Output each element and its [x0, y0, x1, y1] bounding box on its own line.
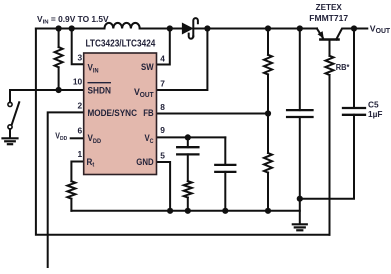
svg-text:5: 5: [160, 150, 165, 160]
svg-text:4: 4: [160, 54, 165, 64]
svg-text:3: 3: [78, 53, 83, 63]
svg-text:VIN = 0.9V TO 1.5V: VIN = 0.9V TO 1.5V: [37, 14, 109, 26]
svg-text:6: 6: [78, 126, 83, 136]
svg-text:8: 8: [160, 102, 165, 112]
svg-text:MODE/SYNC: MODE/SYNC: [88, 108, 138, 119]
svg-text:1: 1: [78, 149, 83, 159]
svg-text:FMMT717: FMMT717: [309, 13, 348, 23]
svg-text:FB: FB: [143, 107, 153, 118]
svg-text:ZETEX: ZETEX: [316, 3, 343, 12]
svg-text:9: 9: [160, 125, 165, 135]
svg-text:10: 10: [73, 77, 83, 87]
svg-text:1µF: 1µF: [368, 109, 382, 119]
svg-text:2: 2: [78, 101, 83, 111]
svg-text:GND: GND: [136, 156, 153, 167]
svg-text:SHDN: SHDN: [88, 85, 111, 96]
svg-text:SW: SW: [141, 62, 154, 73]
svg-text:LTC3423/LTC3424: LTC3423/LTC3424: [86, 38, 157, 50]
svg-text:RB*: RB*: [336, 63, 351, 72]
svg-text:7: 7: [160, 78, 165, 88]
